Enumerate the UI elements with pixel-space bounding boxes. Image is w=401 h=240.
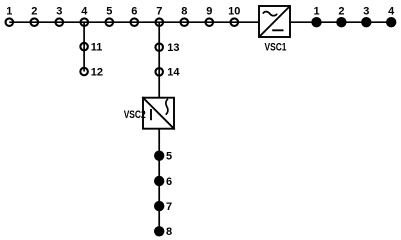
node 5	[106, 6, 114, 26]
svg-text:11: 11	[91, 42, 103, 54]
DC node 8	[154, 226, 172, 238]
DC node 1	[311, 6, 321, 28]
svg-text:VSC2: VSC2	[124, 109, 146, 121]
DC node 2	[336, 6, 346, 28]
svg-text:VSC1: VSC1	[265, 41, 287, 53]
node 3	[56, 6, 64, 26]
converter VSC1	[259, 6, 290, 53]
DC node 7	[154, 201, 172, 213]
DC node 6	[154, 176, 172, 188]
svg-text:14: 14	[167, 67, 180, 79]
svg-text:3: 3	[363, 6, 369, 18]
wire: branch node 7 to nodes 13-14 and VSC2	[158, 22, 160, 97]
svg-text:1: 1	[6, 6, 12, 18]
svg-text:1: 1	[313, 6, 319, 18]
svg-text:5: 5	[106, 6, 112, 18]
DC node 3	[361, 6, 371, 28]
DC node 4	[386, 6, 396, 28]
node 10	[228, 6, 240, 26]
node 9	[206, 6, 214, 26]
wire: VSC1 to DC node 1	[291, 21, 317, 23]
svg-text:2: 2	[338, 6, 344, 18]
node 8	[181, 6, 189, 26]
svg-text:8: 8	[181, 6, 187, 18]
DC node 5	[154, 151, 172, 163]
node 6	[131, 6, 139, 26]
wire: VSC2 to DC nodes 5-8	[158, 130, 160, 232]
svg-text:9: 9	[206, 6, 212, 18]
wire: DC bus nodes 1-4	[317, 21, 392, 23]
svg-text:4: 4	[81, 6, 88, 18]
svg-text:5: 5	[166, 151, 172, 163]
node 13	[155, 42, 179, 54]
node 2	[31, 6, 39, 26]
svg-text:4: 4	[388, 6, 395, 18]
node 11	[80, 42, 102, 54]
svg-text:6: 6	[131, 6, 137, 18]
svg-text:6: 6	[166, 176, 172, 188]
svg-text:7: 7	[156, 6, 162, 18]
node 7	[156, 6, 164, 26]
converter VSC2	[124, 97, 175, 129]
svg-text:13: 13	[167, 42, 179, 54]
svg-text:7: 7	[166, 201, 172, 213]
node 14	[155, 67, 180, 79]
node 12	[80, 66, 103, 78]
node 4	[81, 6, 89, 26]
node 1	[6, 6, 14, 26]
svg-text:12: 12	[91, 66, 103, 78]
wire: branch node 4 to nodes 11-12	[83, 22, 85, 71]
svg-text:10: 10	[228, 6, 240, 18]
wire: AC feeder bus nodes 1-10 to VSC1	[9, 21, 258, 23]
svg-text:2: 2	[31, 6, 37, 18]
svg-text:3: 3	[56, 6, 62, 18]
svg-text:8: 8	[166, 226, 172, 238]
